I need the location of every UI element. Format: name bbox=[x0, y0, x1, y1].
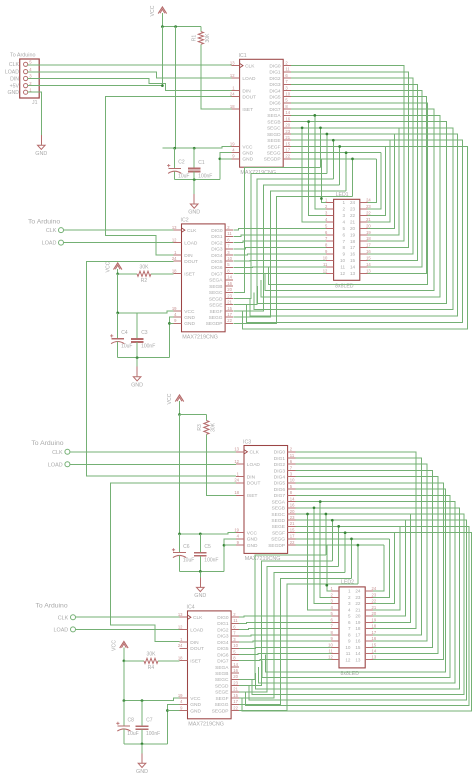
wire IC1 SEGA to IC2 SEGA bbox=[261, 115, 440, 297]
svg-text:10: 10 bbox=[227, 256, 232, 261]
wire IC3 DIG4 to LED2 pin 14 bbox=[295, 477, 438, 654]
svg-text:13: 13 bbox=[350, 271, 356, 276]
pin LOAD tap IC3 bbox=[65, 462, 70, 467]
wire LOAD tap to IC2 bbox=[64, 242, 174, 244]
wire IC1 SEGE to LED1 pin 21 bbox=[367, 140, 390, 222]
ground symbol bbox=[199, 577, 201, 587]
node rail-C1 bbox=[193, 147, 196, 150]
svg-text:22: 22 bbox=[285, 154, 290, 159]
wire IC1 SEGE deep branch to IC2 bbox=[246, 140, 462, 322]
svg-text:SEGB: SEGB bbox=[215, 671, 228, 677]
wire LOAD tap to IC4 bbox=[76, 628, 180, 630]
node rail-C2 bbox=[173, 147, 176, 150]
svg-text:22: 22 bbox=[227, 318, 232, 323]
wire IC2 SEGF wrap channel bbox=[234, 185, 340, 311]
wire IC1 SEGF deep branch to IC2 bbox=[243, 147, 468, 329]
svg-text:GND: GND bbox=[242, 151, 253, 157]
svg-text:23: 23 bbox=[372, 592, 377, 597]
svg-text:DIG0: DIG0 bbox=[274, 450, 286, 456]
svg-text:5: 5 bbox=[343, 226, 346, 231]
node segjoin 4 bbox=[345, 151, 348, 154]
svg-text:ISET: ISET bbox=[184, 271, 195, 277]
wire IC3 SEGE to LED2 pin 21 bbox=[373, 526, 400, 609]
svg-text:10uF: 10uF bbox=[121, 344, 132, 350]
svg-text:24: 24 bbox=[234, 478, 239, 483]
svg-text:+5V: +5V bbox=[10, 83, 20, 89]
node branch pin3 bbox=[307, 120, 310, 123]
wire IC2 DIG2 to LED1 pin 7 bbox=[234, 241, 327, 242]
svg-text:SEGB: SEGB bbox=[267, 119, 280, 125]
svg-text:23: 23 bbox=[290, 515, 295, 520]
wire IC1 DIG5 to LED1 pin 13 bbox=[291, 97, 427, 274]
svg-text:SEGDP: SEGDP bbox=[206, 321, 223, 327]
wire branch to LED2 pin 3 bbox=[314, 508, 331, 604]
svg-text:CLK: CLK bbox=[58, 615, 69, 621]
wire branch to LED2 pin 2 bbox=[320, 502, 331, 598]
svg-text:2: 2 bbox=[343, 207, 346, 212]
wire IC4 DIG7 to LED2 pin 12 bbox=[239, 660, 331, 661]
wire R1 top bbox=[200, 27, 202, 32]
node segjoin b2 bbox=[337, 525, 340, 528]
wire IC2 SEGE wrap channel bbox=[234, 179, 334, 305]
ground symbol bbox=[141, 753, 143, 763]
svg-text:CLK: CLK bbox=[52, 450, 63, 456]
wire +5V J1 to VCC bbox=[28, 85, 163, 87]
svg-text:VCC: VCC bbox=[247, 531, 258, 537]
wire VCC3 rail to R3 bbox=[180, 414, 207, 416]
svg-text:DIG2: DIG2 bbox=[269, 76, 281, 82]
wire VCC4 drop to C8 rail bbox=[123, 661, 125, 701]
svg-text:12: 12 bbox=[234, 459, 239, 464]
svg-text:1: 1 bbox=[343, 200, 346, 205]
svg-text:CLK: CLK bbox=[193, 615, 203, 621]
svg-text:19: 19 bbox=[350, 232, 356, 237]
J1 pin 2 +5V bbox=[24, 84, 28, 88]
svg-text:10: 10 bbox=[345, 645, 351, 650]
svg-text:R1: R1 bbox=[192, 35, 198, 42]
wire VCC drop to +5V line bbox=[161, 27, 163, 86]
wire CLK tap to IC4 bbox=[76, 616, 180, 618]
svg-text:17: 17 bbox=[350, 245, 356, 250]
svg-text:SEGA: SEGA bbox=[272, 499, 286, 505]
svg-text:17: 17 bbox=[355, 632, 361, 637]
node VCC junction A bbox=[161, 25, 164, 28]
svg-text:C4: C4 bbox=[121, 330, 128, 336]
svg-text:13: 13 bbox=[372, 655, 377, 660]
svg-text:21: 21 bbox=[285, 135, 290, 140]
svg-text:GND: GND bbox=[184, 315, 195, 321]
svg-text:10: 10 bbox=[340, 258, 346, 263]
wire IC3 DIG3 to LED2 pin 15 bbox=[295, 471, 432, 648]
svg-text:23: 23 bbox=[227, 293, 232, 298]
svg-text:18: 18 bbox=[234, 490, 239, 495]
svg-text:12: 12 bbox=[230, 73, 235, 78]
wire IC3 SEGDP row bbox=[295, 544, 384, 546]
wire IC1 SEGG row bbox=[291, 152, 381, 154]
svg-text:20: 20 bbox=[285, 123, 290, 128]
wire branch to LED2 pin 1 bbox=[327, 545, 332, 591]
svg-text:SEGDP: SEGDP bbox=[264, 157, 281, 163]
svg-text:DIG2: DIG2 bbox=[211, 240, 223, 246]
node rail-C4 bbox=[116, 312, 119, 315]
svg-text:SEGG: SEGG bbox=[271, 537, 285, 543]
svg-text:21: 21 bbox=[366, 217, 371, 222]
wire IC4 DIG0 to LED2 pin 5 bbox=[239, 616, 331, 617]
svg-text:11: 11 bbox=[328, 649, 333, 654]
J1 pin 1 GND bbox=[24, 90, 28, 94]
wire IC1 SEGDP to LED1 pin 24 bbox=[367, 159, 376, 203]
svg-text:VCC: VCC bbox=[190, 696, 201, 702]
wire IC4 GND pin9 bbox=[167, 710, 179, 712]
node VCC3 junction bbox=[178, 413, 181, 416]
wire IC1 SEGE branch to wrap bbox=[332, 140, 334, 179]
wire R2 to ISET IC2 bbox=[151, 273, 174, 275]
svg-text:19: 19 bbox=[355, 620, 361, 625]
wire IC1 DIG2 to LED1 pin 16 bbox=[291, 78, 413, 254]
wire IC2 SEGDP wrap channel bbox=[234, 197, 353, 324]
wire IC1 SEGF branch to wrap bbox=[339, 147, 341, 186]
wire CLK tap to IC3 bbox=[70, 451, 236, 453]
wire IC2 DIG6 to LED1 pin 11 bbox=[234, 266, 327, 269]
svg-text:SEGC: SEGC bbox=[209, 290, 223, 296]
svg-text:DIG1: DIG1 bbox=[211, 234, 223, 240]
wire R4 to ISET IC4 bbox=[158, 660, 180, 662]
wire IC4 SEGDP wrap channel bbox=[239, 584, 358, 710]
svg-text:15: 15 bbox=[350, 258, 356, 263]
svg-text:14: 14 bbox=[366, 262, 371, 267]
svg-text:12: 12 bbox=[340, 271, 346, 276]
svg-text:DIG4: DIG4 bbox=[217, 640, 229, 646]
wire IC2 GND pin9 bbox=[169, 322, 173, 324]
svg-text:17: 17 bbox=[233, 699, 238, 704]
wire IC1 DIG4 to LED1 pin 14 bbox=[291, 91, 422, 267]
svg-text:22: 22 bbox=[290, 540, 295, 545]
svg-text:C2: C2 bbox=[178, 160, 185, 166]
svg-text:16: 16 bbox=[290, 503, 295, 508]
wire IC4 DIG2 to LED2 pin 7 bbox=[239, 629, 331, 630]
svg-text:100nF: 100nF bbox=[204, 558, 218, 564]
svg-text:LED1: LED1 bbox=[336, 192, 349, 198]
svg-text:23: 23 bbox=[366, 204, 371, 209]
svg-text:18: 18 bbox=[350, 239, 356, 244]
svg-text:LOAD: LOAD bbox=[54, 628, 69, 634]
node segjoin 5 bbox=[351, 158, 354, 161]
svg-text:13: 13 bbox=[355, 657, 361, 662]
svg-text:100nF: 100nF bbox=[198, 173, 212, 179]
svg-text:DOUT: DOUT bbox=[184, 259, 198, 265]
svg-text:DIG1: DIG1 bbox=[274, 456, 286, 462]
svg-text:SEGA: SEGA bbox=[215, 665, 229, 671]
svg-text:DIG0: DIG0 bbox=[211, 228, 223, 234]
wire VCC2 drop to C4 rail bbox=[117, 274, 119, 313]
svg-text:10uF: 10uF bbox=[178, 173, 189, 179]
capacitor C4 10uF polarized bbox=[117, 313, 119, 339]
wire IC3 SEGC branch to wrap bbox=[325, 514, 327, 555]
svg-text:GND: GND bbox=[247, 537, 258, 543]
node VCC junction B bbox=[174, 25, 177, 28]
svg-text:7: 7 bbox=[343, 239, 346, 244]
svg-text:18: 18 bbox=[366, 236, 371, 241]
svg-text:J1: J1 bbox=[32, 100, 38, 106]
svg-text:DIG4: DIG4 bbox=[274, 475, 286, 481]
svg-text:16: 16 bbox=[355, 639, 361, 644]
resistor R3 30K bbox=[204, 421, 209, 435]
wire IC3 SEGF to LED2 pin 22 bbox=[373, 533, 395, 604]
svg-text:15: 15 bbox=[366, 256, 371, 261]
J1 pin 4 LOAD bbox=[24, 70, 28, 74]
svg-text:17: 17 bbox=[366, 243, 371, 248]
svg-text:17: 17 bbox=[290, 534, 295, 539]
svg-text:24: 24 bbox=[355, 589, 361, 594]
svg-text:6: 6 bbox=[343, 232, 346, 237]
svg-text:To Arduino: To Arduino bbox=[10, 53, 35, 59]
wire VCC rail above C1 C2 bbox=[162, 146, 231, 148]
node segjoin 3 bbox=[338, 145, 341, 148]
svg-text:24: 24 bbox=[366, 198, 371, 203]
svg-text:ISET: ISET bbox=[242, 107, 253, 113]
capacitor C8 10uF polarized bbox=[123, 701, 125, 727]
node LED1 pin1 junction bbox=[320, 197, 323, 200]
svg-text:DIG6: DIG6 bbox=[211, 265, 223, 271]
svg-text:DOUT: DOUT bbox=[190, 646, 204, 652]
wire IC1 GND pin9 bbox=[220, 158, 232, 160]
svg-text:20: 20 bbox=[227, 287, 232, 292]
svg-text:GND: GND bbox=[131, 382, 143, 388]
node segjoin b4 bbox=[350, 538, 353, 541]
svg-text:DIG2: DIG2 bbox=[217, 627, 229, 633]
svg-text:DIN: DIN bbox=[184, 253, 193, 259]
svg-text:GND: GND bbox=[136, 769, 148, 773]
svg-text:23: 23 bbox=[233, 680, 238, 685]
svg-text:14: 14 bbox=[350, 265, 356, 270]
wire VCC drop to C2 rail bbox=[175, 27, 177, 149]
wire branch to LED2 pin 4 bbox=[308, 514, 332, 610]
svg-text:18: 18 bbox=[355, 626, 361, 631]
node segjoin 0 bbox=[319, 126, 322, 129]
svg-text:DIG6: DIG6 bbox=[269, 101, 281, 107]
node segjoin b0 bbox=[325, 513, 328, 516]
svg-text:18: 18 bbox=[230, 104, 235, 109]
svg-text:24: 24 bbox=[172, 256, 177, 261]
VCC supply symbol bbox=[117, 269, 119, 283]
svg-text:5: 5 bbox=[348, 614, 351, 619]
resistor R1 30K bbox=[198, 32, 203, 45]
wire IC2 DIG4 to LED1 pin 9 bbox=[234, 254, 327, 255]
svg-text:VCC: VCC bbox=[112, 640, 118, 651]
svg-text:VCC: VCC bbox=[167, 393, 173, 404]
svg-text:24: 24 bbox=[178, 643, 183, 648]
wire branch to LED1 pin 3 bbox=[309, 122, 326, 216]
wire to GND symbol bbox=[193, 180, 195, 204]
wire IC1 SEGD deep branch to IC2 bbox=[250, 134, 458, 316]
wire IC2 SEGG wrap channel bbox=[234, 191, 347, 317]
svg-text:SEGE: SEGE bbox=[209, 303, 222, 309]
svg-text:CLK: CLK bbox=[245, 63, 255, 69]
svg-text:21: 21 bbox=[372, 605, 377, 610]
svg-text:SEGG: SEGG bbox=[215, 702, 229, 708]
svg-text:SEGC: SEGC bbox=[267, 126, 281, 132]
svg-text:LOAD: LOAD bbox=[247, 462, 261, 468]
wire IC3 DIG2 to LED2 pin 16 bbox=[295, 464, 427, 641]
svg-text:GND: GND bbox=[184, 321, 195, 327]
svg-text:16: 16 bbox=[233, 668, 238, 673]
svg-text:DIG3: DIG3 bbox=[217, 634, 229, 640]
svg-text:10: 10 bbox=[328, 642, 333, 647]
svg-text:C3: C3 bbox=[141, 330, 148, 336]
svg-text:GND: GND bbox=[242, 157, 253, 163]
wire IC3 SEGA to IC4 SEGA bbox=[259, 502, 455, 684]
svg-text:14: 14 bbox=[233, 662, 238, 667]
svg-text:LOAD: LOAD bbox=[190, 627, 204, 633]
svg-text:14: 14 bbox=[372, 649, 377, 654]
wire IC1 SEGG to LED1 pin 23 bbox=[367, 153, 381, 209]
wire IC1 GND pins to rail bbox=[220, 153, 232, 180]
J1 pin 3 DIN bbox=[24, 76, 28, 80]
svg-text:SEGB: SEGB bbox=[272, 506, 285, 512]
wire CLK tap to IC2 bbox=[64, 229, 174, 231]
svg-text:1: 1 bbox=[348, 589, 351, 594]
svg-text:11: 11 bbox=[285, 67, 290, 72]
wire IC3 SEGE branch to wrap bbox=[338, 526, 340, 566]
node +5V join bbox=[161, 84, 164, 87]
wire VCC4 to R4 bbox=[124, 660, 144, 662]
wire IC3 SEGG row bbox=[295, 538, 389, 540]
wire IC3 SEGC to LED2 pin 19 bbox=[373, 514, 411, 622]
svg-text:DIG7: DIG7 bbox=[274, 493, 286, 499]
svg-text:DIG7: DIG7 bbox=[217, 659, 229, 665]
svg-text:GND: GND bbox=[188, 210, 200, 216]
svg-text:GND: GND bbox=[190, 708, 201, 714]
svg-text:23: 23 bbox=[285, 129, 290, 134]
svg-text:19: 19 bbox=[366, 230, 371, 235]
svg-text:19: 19 bbox=[172, 306, 177, 311]
wire branch to LED1 pin 4 bbox=[302, 128, 326, 222]
svg-text:16: 16 bbox=[372, 636, 377, 641]
svg-text:17: 17 bbox=[285, 148, 290, 153]
svg-text:22: 22 bbox=[233, 705, 238, 710]
svg-text:16: 16 bbox=[227, 281, 232, 286]
svg-text:DIG0: DIG0 bbox=[269, 63, 281, 69]
svg-text:GND: GND bbox=[35, 151, 47, 157]
wire GND bottom rail bbox=[175, 179, 220, 181]
svg-text:11: 11 bbox=[290, 453, 295, 458]
svg-text:10: 10 bbox=[323, 256, 328, 261]
wire IC1 SEGB to IC2 SEGB bbox=[258, 122, 447, 304]
wire DIN J1 to IC1 bbox=[28, 79, 232, 91]
svg-text:22: 22 bbox=[372, 599, 377, 604]
wire IC2 DIG0 to LED1 pin 5 bbox=[234, 228, 327, 230]
wire IC1 SEGD branch to wrap bbox=[326, 134, 328, 173]
wire branch to LED1 pin 2 bbox=[315, 115, 326, 209]
svg-text:GND: GND bbox=[190, 702, 201, 708]
node segjoin 1 bbox=[326, 133, 329, 136]
wire to GND symbol 3 bbox=[199, 571, 201, 587]
wire IC3 DIG5 to LED2 pin 13 bbox=[295, 483, 443, 660]
svg-text:DIG5: DIG5 bbox=[217, 646, 229, 652]
svg-text:21: 21 bbox=[355, 607, 361, 612]
svg-text:SEGD: SEGD bbox=[209, 296, 223, 302]
svg-text:9: 9 bbox=[348, 639, 351, 644]
wire IC1 DOUT to IC2 DIN bbox=[105, 97, 231, 255]
wire IC1 SEGC branch to wrap bbox=[320, 128, 322, 168]
svg-text:SEGC: SEGC bbox=[215, 677, 229, 683]
svg-text:8: 8 bbox=[348, 632, 351, 637]
svg-text:SEGD: SEGD bbox=[271, 518, 285, 524]
svg-text:14: 14 bbox=[227, 275, 232, 280]
svg-text:30K: 30K bbox=[205, 33, 211, 43]
wire IC3 DIG1 to LED2 pin 17 bbox=[295, 458, 421, 635]
wire CLK J1 to IC1 bbox=[28, 64, 232, 66]
wire IC4 DIG6 to LED2 pin 11 bbox=[239, 654, 331, 655]
node rail-C5 bbox=[199, 533, 202, 536]
wire IC3 SEGF to IC4 SEGF bbox=[242, 533, 471, 712]
svg-text:24: 24 bbox=[350, 200, 356, 205]
wire VCC rail to R1 bbox=[162, 26, 201, 28]
wire IC2 GND pins bbox=[169, 317, 173, 358]
svg-text:100nF: 100nF bbox=[141, 344, 155, 350]
capacitor C2 10uF polarized bbox=[174, 148, 176, 168]
svg-text:17: 17 bbox=[227, 312, 232, 317]
svg-text:17: 17 bbox=[372, 630, 377, 635]
svg-text:21: 21 bbox=[227, 300, 232, 305]
svg-text:SEGC: SEGC bbox=[271, 512, 285, 518]
node segjoin b5 bbox=[357, 544, 360, 547]
wire IC4 SEGF wrap channel bbox=[239, 573, 345, 699]
svg-text:DIG3: DIG3 bbox=[274, 468, 286, 474]
svg-text:13: 13 bbox=[178, 612, 183, 617]
svg-text:SEGF: SEGF bbox=[209, 309, 222, 315]
svg-text:21: 21 bbox=[350, 220, 356, 225]
svg-text:7: 7 bbox=[348, 626, 351, 631]
svg-text:DIG3: DIG3 bbox=[211, 247, 223, 253]
wire IC4 DIG5 to LED2 pin 10 bbox=[239, 647, 331, 648]
svg-text:C6: C6 bbox=[183, 544, 190, 550]
node VCC4 junction bbox=[123, 660, 126, 663]
VCC supply symbol bbox=[179, 401, 181, 415]
wire IC3 SEGG branch to wrap bbox=[351, 539, 353, 578]
node segjoin b3 bbox=[344, 531, 347, 534]
wire IC1 DIG6 to IC2 DIG6 bbox=[269, 103, 428, 284]
svg-text:SEGF: SEGF bbox=[272, 531, 285, 537]
node bottom rail C5 bbox=[199, 570, 202, 573]
svg-text:DIG5: DIG5 bbox=[269, 95, 281, 101]
svg-text:R2: R2 bbox=[141, 278, 148, 284]
svg-text:GND: GND bbox=[7, 90, 19, 96]
svg-text:18: 18 bbox=[372, 624, 377, 629]
wire IC2 DIG1 to LED1 pin 6 bbox=[234, 235, 327, 237]
svg-text:14: 14 bbox=[355, 651, 361, 656]
wire IC3 DIG6 to IC4 DIG6 bbox=[265, 489, 445, 672]
svg-text:SEGE: SEGE bbox=[267, 138, 280, 144]
svg-text:DIG5: DIG5 bbox=[274, 481, 286, 487]
J1 pin 5 CLK bbox=[24, 62, 28, 66]
svg-text:6: 6 bbox=[348, 620, 351, 625]
wire IC1 SEGF to LED1 pin 22 bbox=[367, 147, 385, 216]
svg-text:DIG6: DIG6 bbox=[274, 487, 286, 493]
svg-text:3: 3 bbox=[343, 213, 346, 218]
svg-text:R4: R4 bbox=[148, 665, 155, 671]
wire IC3 SEGE to IC4 SEGE bbox=[246, 526, 470, 705]
svg-text:DIG4: DIG4 bbox=[211, 253, 223, 259]
node rail-C8 bbox=[123, 699, 126, 702]
svg-text:22: 22 bbox=[350, 213, 356, 218]
svg-text:14: 14 bbox=[290, 496, 295, 501]
svg-text:To Arduino: To Arduino bbox=[36, 603, 68, 610]
wire IC2 DOUT to IC3 DIN bbox=[87, 261, 236, 476]
svg-text:10uF: 10uF bbox=[127, 731, 138, 737]
wire IC1 DIG3 to LED1 pin 15 bbox=[291, 84, 418, 260]
svg-text:15: 15 bbox=[233, 693, 238, 698]
